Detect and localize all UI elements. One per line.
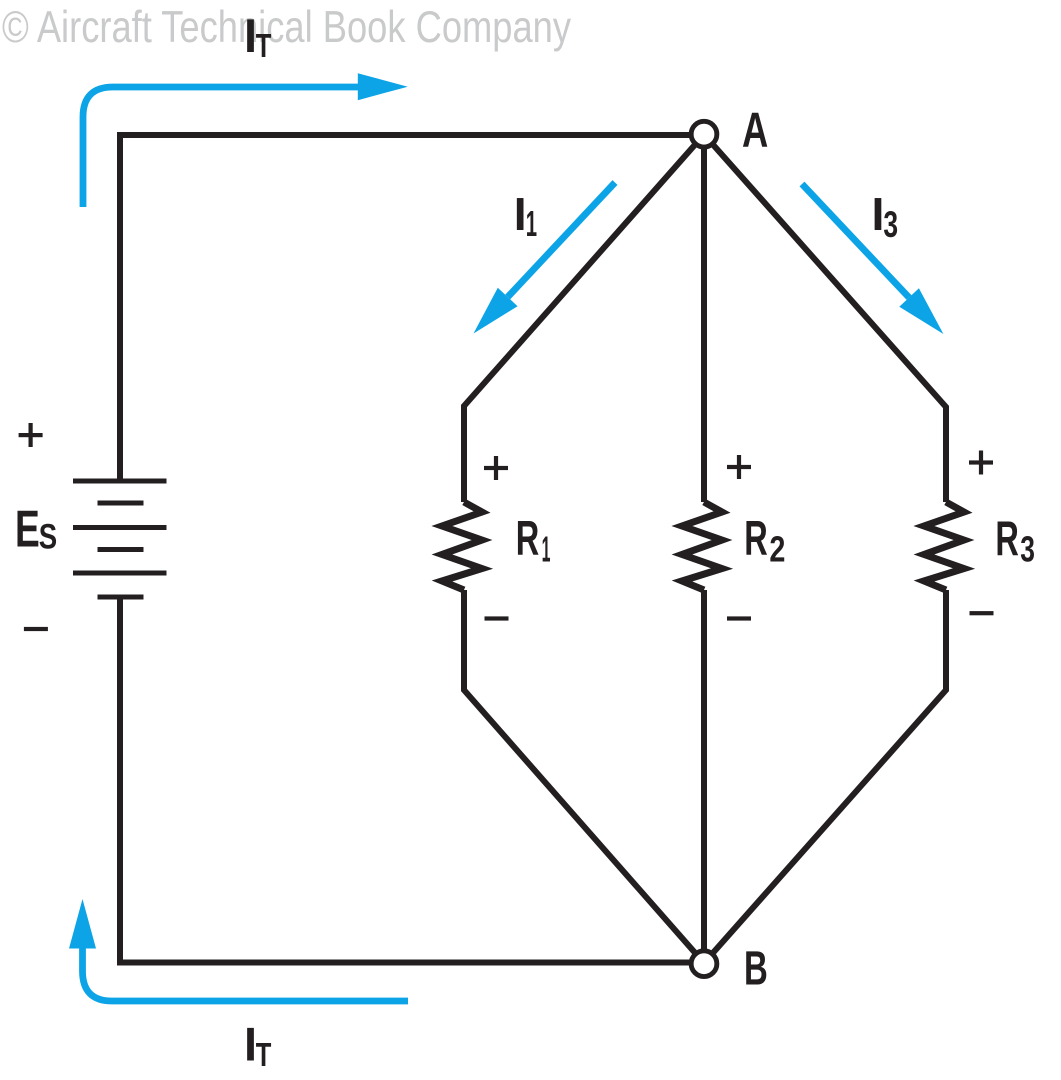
plus sign at R1 top	[484, 456, 508, 480]
minus sign at R1 bottom	[485, 616, 509, 620]
minus sign at battery negative	[24, 627, 48, 631]
battery ES plate 4 (short)	[98, 547, 144, 552]
svg-text:1: 1	[542, 528, 551, 569]
node B circle	[691, 951, 717, 977]
battery ES plate 5 (long)	[73, 571, 167, 576]
svg-text:B: B	[744, 942, 768, 996]
svg-text:T: T	[256, 1036, 272, 1073]
wire: top wire from battery positive to node A	[120, 132, 704, 138]
svg-text:S: S	[39, 518, 57, 557]
wire: from battery negative down and along bottom to node B	[120, 596, 704, 963]
svg-text:I: I	[514, 188, 527, 240]
wire: left vertical from top wire down to battery	[117, 132, 123, 481]
wire: resistor R1 bottom to node B (vertical + diagonal)	[464, 590, 704, 963]
svg-text:1: 1	[526, 204, 537, 244]
battery ES plate 1 (long, +)	[73, 479, 167, 484]
plus sign at R2 top	[727, 455, 751, 479]
current arrow I3 (blue diagonal)	[802, 184, 909, 298]
svg-text:2: 2	[769, 528, 785, 569]
current arrow IT bottom (blue)	[83, 948, 409, 1001]
svg-text:© Aircraft Technical Book Comp: © Aircraft Technical Book Company	[2, 3, 572, 52]
resistor R3 zigzag	[924, 502, 964, 590]
svg-text:R: R	[516, 512, 540, 566]
node A circle	[691, 121, 717, 147]
wire: node A to resistor R1 top (diagonal + vertical)	[464, 135, 704, 503]
plus sign at battery positive	[19, 423, 43, 447]
wire: node A to resistor R3 top (diagonal + vertical)	[704, 135, 946, 503]
current arrow I1 (blue diagonal)	[508, 183, 615, 298]
svg-text:E: E	[15, 500, 40, 558]
current arrow IT top (blue)	[83, 87, 358, 207]
wire: resistor R3 bottom to node B (vertical + diagonal)	[704, 590, 946, 963]
minus sign at R2 bottom	[727, 616, 751, 620]
svg-text:3: 3	[883, 204, 898, 245]
resistor R1 zigzag	[442, 502, 482, 590]
svg-text:A: A	[742, 104, 768, 158]
battery ES plate 6 (short, -)	[98, 595, 144, 600]
svg-text:R: R	[995, 512, 1019, 566]
battery ES plate 2 (short)	[98, 501, 144, 506]
svg-text:3: 3	[1020, 529, 1035, 570]
wire: node A to resistor R2 top (vertical)	[701, 135, 707, 503]
svg-text:T: T	[256, 27, 272, 64]
minus sign at R3 bottom	[970, 611, 994, 615]
resistor R2 zigzag	[682, 502, 722, 590]
battery ES plate 3 (long)	[73, 525, 167, 530]
wire: resistor R2 bottom to node B (vertical)	[701, 590, 707, 963]
svg-text:R: R	[744, 512, 768, 566]
plus sign at R3 top	[969, 451, 993, 475]
